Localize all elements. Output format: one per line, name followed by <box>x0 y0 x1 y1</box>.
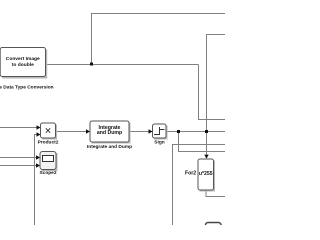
svg-text:Sign: Sign <box>154 140 164 146</box>
wire: Product2 input 2 vertical from bottom <box>35 135 38 226</box>
block: partial block at bottom right edge <box>206 223 222 233</box>
arrowhead into Scope2 input 2 <box>36 163 40 167</box>
arrowhead into Fcn block (down) <box>204 155 208 159</box>
wire: Product2 output to Integrate and Dump <box>56 131 87 133</box>
block U1: Image Data Type Conversion (Convert Image to double) <box>0 48 47 79</box>
block: Integrate and Dump <box>90 121 131 144</box>
block: Product2 <box>41 123 58 140</box>
block: Sign <box>153 124 168 140</box>
arrowhead into Product2 input 1 <box>37 125 41 129</box>
junction dot at (206,131) <box>205 130 208 133</box>
block: Fcn For2 (u*255) <box>198 159 215 192</box>
svg-text:Scope2: Scope2 <box>39 170 56 176</box>
arrowhead into Integrate and Dump <box>86 129 90 133</box>
block: Scope2 <box>40 152 58 172</box>
junction dot at (178,131) <box>177 130 180 133</box>
wire: Scope2 input 1 from left edge <box>0 157 37 159</box>
wire: branch up at x=91 to top line <box>92 14 226 65</box>
wire: corner down at x=198 <box>199 65 226 120</box>
svg-text:Convert Image: Convert Image <box>6 56 40 62</box>
svg-text:u*255: u*255 <box>199 171 213 177</box>
wire: Scope2 input 2 from left edge <box>0 165 37 167</box>
wire: branch up x=206 to right edge y=34 <box>207 35 226 132</box>
svg-text:to double: to double <box>12 62 34 68</box>
arrowhead into Scope2 input 1 <box>36 155 40 159</box>
junction dot at (91,64) <box>90 63 93 66</box>
svg-text:and Dump: and Dump <box>97 130 122 136</box>
wire: Fcn output down then right <box>206 191 225 197</box>
arrowhead into Sign <box>149 129 153 133</box>
wire: Sign output to right edge <box>166 131 225 133</box>
svg-text:For2: For2 <box>185 170 196 176</box>
wire: Product2 input 1 from left edge <box>0 127 37 129</box>
svg-text:Image Data Type Conversion: Image Data Type Conversion <box>0 84 54 90</box>
wire: Convert Image output horizontal <box>46 64 199 66</box>
arrowhead into Product2 input 2 <box>37 132 41 136</box>
svg-text:Integrate and Dump: Integrate and Dump <box>87 144 132 150</box>
wire: branch down x=206 into Fcn block <box>206 132 208 155</box>
wire: Integrate and Dump output to Sign <box>129 131 149 133</box>
svg-text:Product2: Product2 <box>38 140 59 146</box>
wire: branch down from x=178 then right at y=151 <box>179 132 226 152</box>
wire: horizontal y=144 turning down at x=172 <box>173 145 226 226</box>
